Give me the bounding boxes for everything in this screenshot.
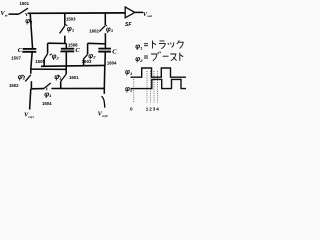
switch 1502 phi2 symbol [18,74,26,81]
svg-text:φ2: φ2 [135,56,143,63]
wire C1507 bottom lead down to 1502 [31,52,32,74]
wire Vin lead [9,13,19,15]
svg-text:1507: 1507 [11,55,21,60]
legend phi1 = track [135,40,183,50]
svg-text:1505: 1505 [35,59,45,64]
switch 1602 top lead from rail [104,13,106,25]
capacitor C1604 label [107,60,117,65]
wire y43 right horizontal 1603 to C1604 branch [88,42,106,45]
switch 1505 phi2 symbol [52,54,60,61]
switch 1505 label [35,59,45,64]
capacitor C1508 label [68,42,78,47]
switch 1502 blade [25,75,31,82]
switch 1603 phi2 symbol [88,53,96,60]
svg-text:φ1: φ1 [125,69,133,76]
wire Vref1 stub [30,89,31,110]
svg-text:1604: 1604 [107,60,117,65]
svg-text:φ2: φ2 [88,53,96,60]
katakana ku [177,40,183,48]
svg-text:φ1: φ1 [44,91,52,98]
wire y69 horizontal from 1502 top to 1601 [31,68,66,70]
svg-text:C: C [75,47,80,54]
switch 1504 label [42,101,52,106]
switch 1503 top lead [64,13,66,26]
switch 1504 phi1 symbol [44,91,52,98]
switch 1601 phi1 symbol [54,74,62,81]
svg-text:φ1: φ1 [25,18,33,25]
svg-text:1501: 1501 [20,1,30,6]
svg-text:φ2: φ2 [52,54,60,61]
svg-text:0: 0 [130,107,133,112]
switch 1601 blade [61,75,66,82]
switch 1505 bottom lead [43,59,45,66]
switch 1503 label [66,17,76,22]
switch 1601 bottom lead [60,81,62,88]
svg-text:φ2: φ2 [125,86,133,93]
node Vin label [0,10,7,17]
wire bus2 [31,88,44,90]
capacitor C1508 top lead [65,44,67,49]
switch 1601 top lead from bus1 [65,66,67,75]
svg-text:SF: SF [125,22,132,28]
switch 1602 blade [99,26,105,32]
node Vref1 label [24,112,34,119]
wire C1508 bottom to bus1 [65,51,67,66]
wire below bus2 [103,88,105,93]
katakana long bar [163,55,169,57]
switch 1603 blade [83,54,87,59]
katakana small tsu [168,42,174,47]
svg-text:1502: 1502 [9,83,19,88]
switch 1504 blade [44,83,51,88]
capacitor C1508 [61,48,74,50]
legend phi2 = boost [135,52,183,64]
svg-text:φ1: φ1 [106,26,114,33]
wire top rail [28,12,125,14]
switch 1603 label [82,59,92,64]
waveform dashed time markers [134,71,158,103]
wire C1604 bottom to bus1 [104,52,106,66]
svg-text:φ2: φ2 [18,74,26,81]
capacitor C1507 [23,48,37,50]
waveform phi1 trace [131,68,187,77]
katakana bu [151,52,161,61]
switch 1502 bottom lead [30,81,32,89]
wire right vertical bus1 to bus2 [103,65,106,88]
switch 1501 blade [19,8,28,14]
svg-text:φ1: φ1 [135,44,143,51]
wire bus1 [41,64,105,67]
katakana ra [159,41,165,49]
wire buffer output [135,11,143,13]
capacitor C1507 label [11,55,21,60]
katakana to [153,41,157,49]
svg-text:C: C [112,48,117,55]
switch 1602 label [89,29,99,34]
svg-text:1503: 1503 [66,17,76,22]
svg-text:C: C [18,47,23,54]
capacitor C1604 [98,48,111,50]
switch 1603 bottom lead [83,59,85,66]
waveform phi2 trace [131,79,187,88]
svg-text:1508: 1508 [68,42,78,47]
switch 1503 phi1 symbol [67,26,75,33]
switch blade to Vref0 [101,96,104,107]
switch 1502 label [9,83,19,88]
waveform time labels [130,107,159,112]
svg-text:1602: 1602 [89,29,99,34]
op-amp buffer SF [125,7,135,18]
switch 1602 bottom lead [104,33,106,48]
svg-text:1601: 1601 [69,75,79,80]
katakana to [180,53,183,61]
wire rail drop to C1507 [30,13,32,49]
svg-text:φ1: φ1 [67,26,75,33]
node Vout label [143,11,153,18]
wire y43 horizontal [48,42,67,44]
switch 1503 bottom lead [64,36,66,44]
switch 1501 phi1 symbol [25,18,33,25]
wire corner from y43 wire down to 1505 [47,43,49,53]
svg-text:4: 4 [156,107,159,112]
switch 1501 label [20,1,30,6]
katakana su [170,54,176,61]
switch 1505 blade [44,53,48,59]
svg-text:1504: 1504 [42,101,52,106]
switch 1503 blade [60,26,65,34]
node Vref0 label [98,111,108,118]
switch 1603 top lead [87,43,89,54]
switch 1602 phi1 symbol [106,26,114,33]
switch 1601 label [69,75,79,80]
